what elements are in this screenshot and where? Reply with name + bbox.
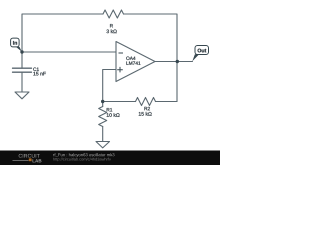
value 15 kOhm	[139, 112, 152, 116]
wire C1 top	[21, 52, 23, 68]
op-amp minus symbol	[119, 52, 124, 54]
label R	[110, 24, 113, 27]
op-amp output wire	[155, 61, 193, 63]
capacitor C1 plates	[13, 68, 32, 72]
footer bar	[0, 151, 220, 166]
wire noninverting input	[103, 70, 116, 102]
Out flag text	[198, 49, 207, 53]
footer logo icon	[29, 158, 32, 161]
label R1	[107, 108, 113, 111]
ground under R1	[96, 142, 110, 148]
In flag text	[13, 41, 17, 45]
footer logo LAB	[33, 159, 42, 162]
resistor R zigzag	[103, 10, 124, 18]
wire inverting input	[22, 51, 116, 53]
junction node In	[20, 50, 23, 53]
wire R2 horizontal left	[103, 101, 136, 103]
label OA4	[126, 57, 135, 60]
resistor R2 zigzag	[136, 98, 156, 106]
junction node R1/R2	[101, 100, 104, 103]
In flag box	[11, 38, 20, 47]
value LM741	[126, 62, 140, 65]
value 15 nF	[33, 72, 45, 76]
resistor R1 zigzag	[99, 107, 107, 127]
label C1	[33, 68, 39, 71]
op-amp plus symbol	[117, 67, 123, 73]
ground under C1	[15, 92, 29, 99]
op-amp OA4 triangle	[116, 42, 155, 82]
label R2	[144, 107, 150, 110]
value 3 kOhm	[107, 29, 117, 33]
footer url	[53, 158, 111, 162]
footer logo CIRCUIT	[19, 154, 40, 158]
Out flag pointer	[192, 54, 199, 61]
Out flag box	[195, 46, 209, 55]
wire R1 top stub	[102, 102, 104, 107]
In flag pointer	[15, 46, 22, 51]
junction node output	[176, 60, 179, 63]
wire R2 horizontal right	[156, 101, 178, 103]
wire top-left vertical	[22, 14, 103, 52]
wire R1 bottom stub	[102, 127, 104, 142]
footer circuit title	[53, 153, 114, 157]
value 10 kOhm	[107, 113, 120, 117]
footer logo rule	[13, 159, 29, 161]
wire top-right	[124, 14, 178, 102]
wire C1 bottom	[21, 72, 23, 92]
